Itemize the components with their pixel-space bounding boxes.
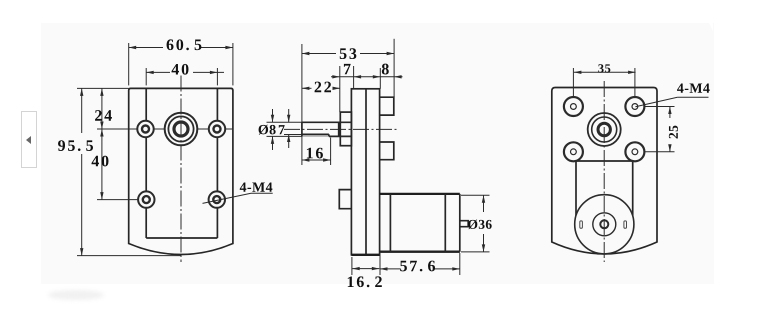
right view center boss circles bbox=[588, 113, 621, 146]
middle view gearbox plate bbox=[351, 89, 379, 255]
middle view shaft boss bbox=[340, 112, 351, 146]
panel top-right clipped corner bbox=[709, 23, 713, 31]
dimension 95.5 left of left view bbox=[81, 88, 83, 133]
dimension 60.5 top of left view bbox=[128, 43, 130, 85]
dimension 57.6 motor length bbox=[380, 251, 460, 253]
dimension 22 middle view bbox=[302, 87, 312, 89]
dimension 7 middle view boss bbox=[339, 66, 341, 112]
right view lower-right hole bbox=[625, 142, 644, 161]
right view motor circle bbox=[575, 195, 634, 254]
left view horizontal centerline segments bbox=[97, 128, 137, 130]
label 4-M4 right view with leader bbox=[677, 83, 710, 92]
dimension O36 motor diameter bbox=[461, 194, 490, 196]
right view lower-left hole bbox=[564, 142, 583, 161]
right view brush slot right bbox=[624, 221, 627, 228]
dimension 40 top of left view bbox=[145, 68, 147, 85]
left view upper-right hole bbox=[209, 121, 225, 137]
right view brush slot left bbox=[580, 221, 583, 228]
dimension 35 right view bbox=[572, 68, 574, 96]
dimension 24 left of left view bbox=[77, 87, 129, 89]
middle view output shaft bbox=[302, 121, 352, 123]
right view upper-left hole bbox=[564, 97, 583, 116]
dimension 53 middle view bbox=[301, 44, 303, 122]
dimension 25 right view bbox=[644, 106, 675, 108]
faint smudge bottom-left bbox=[48, 290, 104, 300]
left view output shaft boss circles bbox=[165, 113, 198, 146]
dimension O8 7 shaft middle view bbox=[267, 121, 302, 123]
middle view shaft boss collar step bbox=[338, 122, 340, 136]
drawing panel background bbox=[41, 23, 714, 284]
left view lower-right hole bbox=[209, 191, 225, 207]
left view upper-left hole bbox=[137, 121, 153, 137]
middle view upper right tab bbox=[380, 97, 394, 115]
middle view lower right tab bbox=[380, 142, 394, 160]
right view plate outline bbox=[552, 88, 657, 254]
middle view left tab bbox=[339, 190, 351, 209]
right view vertical centerline bbox=[603, 81, 605, 262]
left view lower-left hole bbox=[138, 191, 154, 207]
dimension 8 middle view bbox=[379, 68, 381, 89]
left view inner face outline bbox=[145, 88, 147, 238]
middle view motor body bbox=[380, 193, 460, 195]
label 4-M4 left view with leader bbox=[240, 182, 273, 191]
left view plate outline bbox=[129, 88, 233, 254]
dimension 40 left-lower of left view bbox=[101, 129, 103, 200]
dimension 16 middle view shaft flat bbox=[301, 136, 303, 165]
right view upper-right hole bbox=[625, 97, 644, 116]
right view neck outline bbox=[576, 160, 633, 162]
middle view horizontal centerline bbox=[284, 128, 397, 130]
dimension 16.2 plate thickness bbox=[351, 257, 353, 275]
left view vertical centerline bbox=[180, 76, 182, 263]
left navigation arrow box bbox=[21, 111, 37, 168]
middle view motor rear shaft stub bbox=[460, 221, 468, 227]
